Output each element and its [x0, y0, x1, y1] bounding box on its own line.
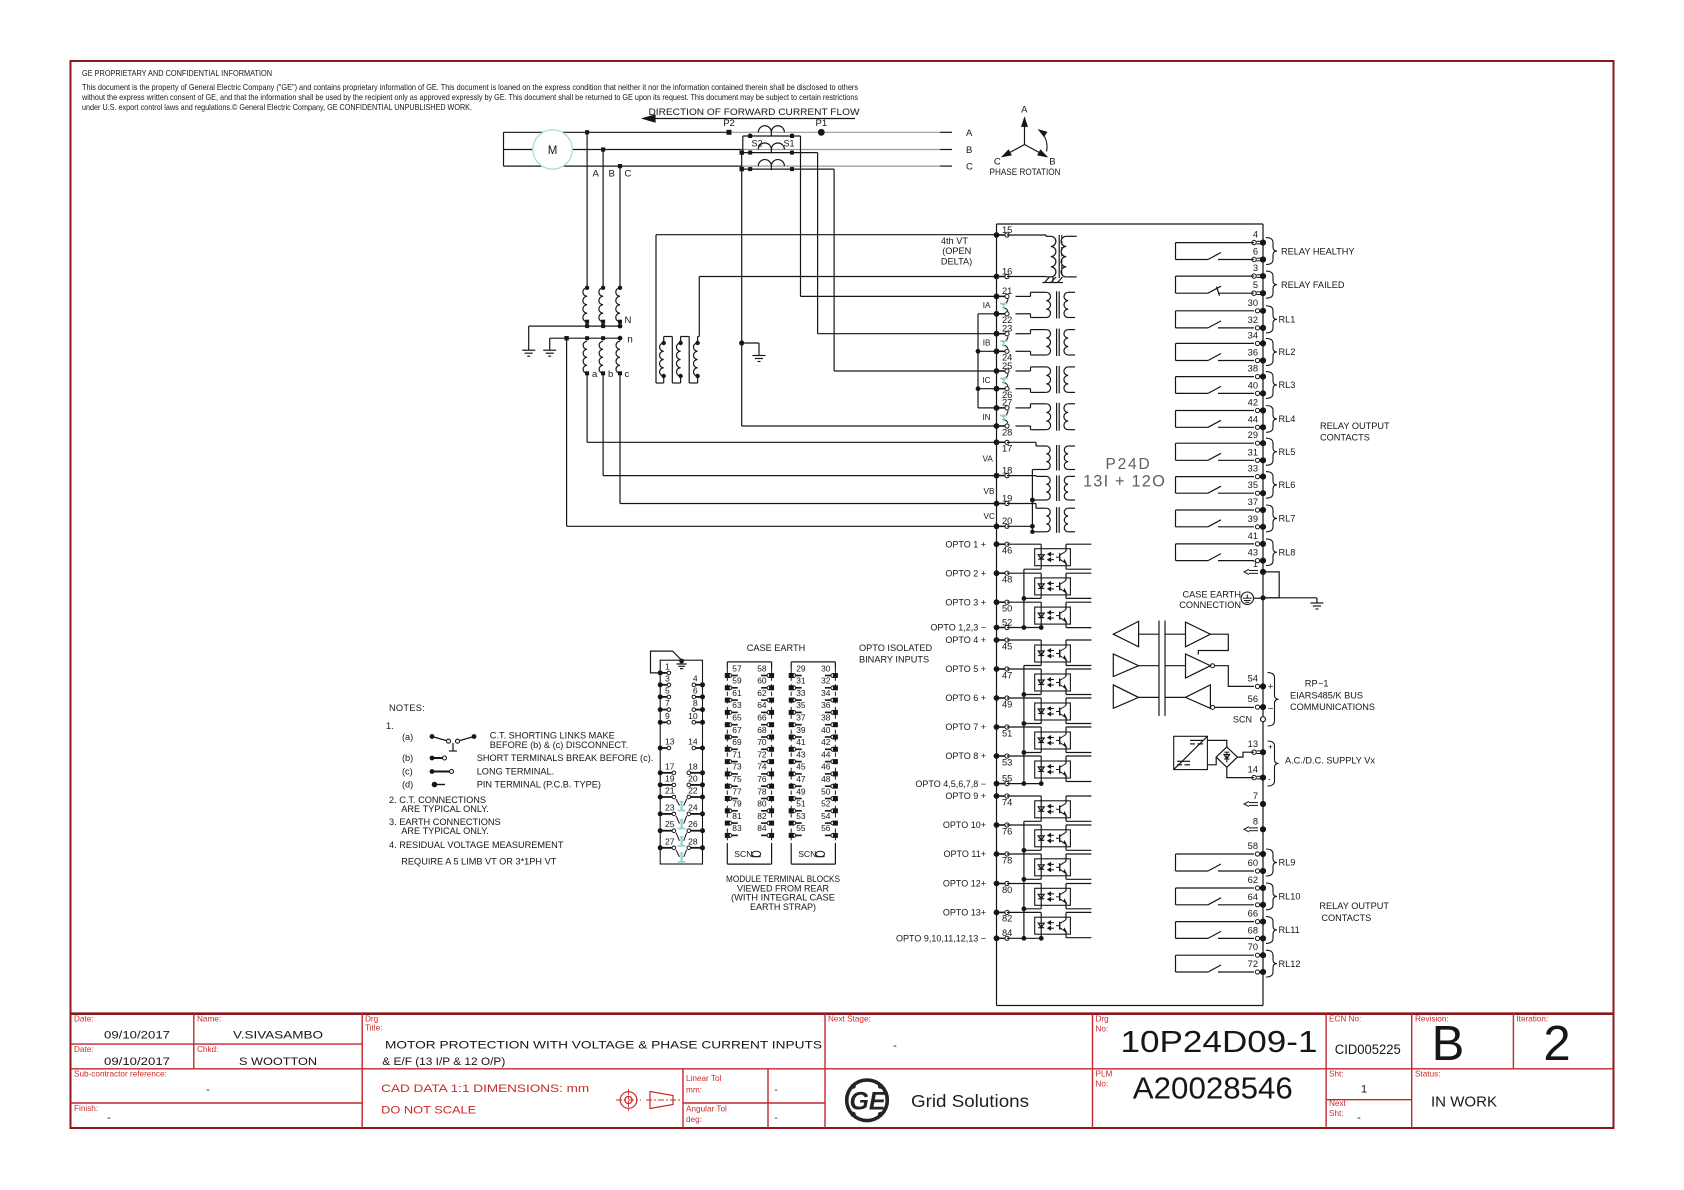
svg-text:RL11: RL11: [1279, 925, 1300, 935]
wire opto collector out: [1065, 825, 1067, 832]
brace RL11: [1266, 917, 1277, 944]
block terminals 67/68: [725, 735, 730, 740]
terminal 80: [994, 881, 1000, 887]
CT phase A winding: [758, 126, 784, 133]
wire bridge to terminal 13: [1237, 752, 1254, 757]
terminal 39: [1255, 525, 1259, 529]
svg-text:32: 32: [821, 676, 831, 686]
svg-text:44: 44: [821, 749, 831, 759]
transformer IN: [1046, 404, 1050, 430]
wire tap B down to VT: [602, 150, 604, 288]
svg-text:(b): (b): [402, 753, 413, 763]
block1 terminals 25/26: [658, 828, 663, 833]
relay contact RELAY FAILED: [1176, 275, 1255, 277]
svg-text:62: 62: [757, 688, 767, 698]
svg-text:31: 31: [796, 676, 806, 686]
svg-text:-: -: [1357, 1112, 1361, 1124]
svg-text:c: c: [625, 369, 630, 380]
svg-text:58: 58: [1248, 841, 1258, 851]
svg-text:8: 8: [693, 698, 698, 708]
wire tap C down to VT: [619, 166, 621, 288]
svg-text:VB: VB: [984, 487, 995, 496]
svg-text:52: 52: [821, 799, 831, 809]
svg-text:27: 27: [665, 836, 675, 846]
optocoupler OPTO 9: [1035, 801, 1071, 818]
svg-text:B: B: [1432, 1017, 1465, 1071]
wire opto anode: [1007, 601, 1041, 603]
svg-text:IA: IA: [983, 301, 991, 310]
relay contact RELAY HEALTHY: [1176, 242, 1255, 244]
svg-text:74: 74: [757, 762, 767, 772]
RS485 buffer triangle right 3: [1186, 685, 1211, 708]
terminal 51: [994, 724, 1000, 730]
svg-text:Linear Tol: Linear Tol: [686, 1074, 722, 1083]
svg-text:P24D: P24D: [1106, 456, 1152, 473]
svg-text:Finish:: Finish:: [74, 1104, 98, 1113]
brace RELAY HEALTHY: [1266, 238, 1277, 265]
svg-text:84: 84: [1002, 928, 1012, 938]
svg-text:31: 31: [1248, 447, 1258, 457]
svg-text:30: 30: [821, 663, 831, 673]
wire opto emitter out: [1065, 903, 1067, 909]
brace RS485: [1268, 673, 1279, 726]
svg-text:83: 83: [732, 823, 742, 833]
terminal 13: [1252, 750, 1256, 754]
block terminals 39/40: [789, 735, 794, 740]
svg-text:IB: IB: [983, 339, 991, 348]
svg-text:62: 62: [1248, 875, 1258, 885]
svg-text:45: 45: [796, 762, 806, 772]
svg-text:37: 37: [1248, 497, 1258, 507]
svg-text:ECN No:: ECN No:: [1329, 1015, 1361, 1024]
case earth connection symbol: [1241, 592, 1253, 604]
svg-text:30: 30: [1248, 298, 1258, 308]
svg-text:28: 28: [1002, 427, 1012, 437]
optocoupler OPTO 12: [1035, 888, 1071, 905]
svg-text:09/10/2017: 09/10/2017: [104, 1030, 170, 1042]
wire opto anode: [1007, 543, 1041, 545]
svg-text:66: 66: [1248, 909, 1258, 919]
phase B line: [504, 149, 742, 151]
phase tap junction B: [601, 147, 605, 151]
svg-text:37: 37: [796, 713, 806, 723]
svg-text:OPTO 2 +: OPTO 2 +: [945, 568, 986, 578]
relay contact RL10: [1176, 887, 1255, 889]
svg-text:SHORT TERMINALS BREAK BEFORE (: SHORT TERMINALS BREAK BEFORE (c).: [477, 753, 654, 763]
block terminals 79/80: [725, 808, 730, 813]
svg-text:VC: VC: [984, 512, 995, 521]
svg-text:19: 19: [1002, 493, 1012, 503]
svg-text:77: 77: [732, 786, 742, 796]
svg-text:66: 66: [757, 713, 767, 723]
svg-text:B: B: [1049, 156, 1055, 167]
terminal 72: [1255, 970, 1259, 974]
RS485 buffer triangle left 3: [1113, 685, 1138, 708]
svg-text:S WOOTTON: S WOOTTON: [239, 1056, 317, 1068]
relay contact RL3: [1176, 376, 1255, 378]
terminal 34: [1255, 341, 1259, 345]
svg-text:4. RESIDUAL VOLTAGE MEASURE: 4. RESIDUAL VOLTAGE MEASUREMENT: [389, 840, 564, 850]
svg-text:8: 8: [1253, 816, 1258, 826]
block terminals 57/58: [725, 673, 730, 678]
open delta winding 2: [676, 343, 680, 376]
svg-text:Drg: Drg: [365, 1015, 379, 1024]
brace RL2: [1266, 338, 1277, 365]
svg-text:CID005225: CID005225: [1335, 1042, 1401, 1057]
wire a to terminal 17: [586, 373, 588, 442]
CT A secondary loop: [743, 135, 801, 137]
block terminals 81/82: [725, 821, 730, 826]
brace supply: [1268, 741, 1279, 786]
svg-text:40: 40: [1248, 380, 1258, 390]
svg-text:82: 82: [1002, 914, 1012, 924]
svg-text:-: -: [206, 1084, 210, 1096]
relay contact RL12: [1176, 954, 1255, 956]
wire last opto cathode: [1040, 624, 1042, 627]
svg-text:76: 76: [1002, 826, 1012, 836]
block terminals 61/62: [725, 698, 730, 703]
terminal 35: [1255, 491, 1259, 495]
wire opto emitter out: [1065, 718, 1067, 724]
svg-text:−: −: [1268, 703, 1274, 714]
CT phase C winding: [758, 160, 784, 167]
svg-text:1: 1: [665, 661, 670, 671]
VT secondary winding b: [599, 341, 603, 373]
svg-text:RL5: RL5: [1279, 447, 1296, 457]
svg-text:25: 25: [665, 819, 675, 829]
svg-text:mm:: mm:: [686, 1086, 702, 1095]
phase tap junction A: [585, 130, 589, 134]
svg-text:29: 29: [796, 663, 806, 673]
svg-text:BEFORE (b) & (c) DISCONNECT.: BEFORE (b) & (c) DISCONNECT.: [490, 740, 628, 750]
svg-text:50: 50: [821, 786, 831, 796]
svg-text:34: 34: [821, 688, 831, 698]
terminal 58: [1255, 852, 1259, 856]
svg-text:80: 80: [1002, 885, 1012, 895]
wire tap A down to VT: [586, 132, 588, 287]
svg-text:C: C: [625, 169, 632, 180]
svg-text:60: 60: [757, 676, 767, 686]
terminal 31: [1255, 458, 1259, 462]
svg-text:Angular Tol: Angular Tol: [686, 1105, 727, 1114]
wire opto collector out: [1065, 573, 1067, 580]
wire opto cathode to minus bus: [1040, 749, 1042, 753]
svg-text:36: 36: [821, 700, 831, 710]
RS485 buffer triangle right 1: [1186, 622, 1211, 647]
block1 terminals 9/10: [658, 720, 663, 725]
svg-text:49: 49: [796, 786, 806, 796]
wire opto anode: [1007, 668, 1041, 670]
svg-text:45: 45: [1002, 641, 1012, 651]
svg-text:-: -: [893, 1040, 897, 1052]
svg-text:75: 75: [732, 774, 742, 784]
svg-text:GE PROPRIETARY AND CONFIDENTIA: GE PROPRIETARY AND CONFIDENTIAL INFORMAT…: [82, 68, 272, 78]
svg-text:RL8: RL8: [1279, 547, 1296, 557]
terminal 24: [994, 348, 1000, 354]
svg-text:2: 2: [1543, 1017, 1570, 1071]
VT secondary bus n: [550, 337, 620, 339]
svg-text:1: 1: [1253, 559, 1258, 569]
brace RL1: [1266, 306, 1277, 333]
terminal block right: [791, 661, 835, 663]
svg-text:67: 67: [732, 725, 742, 735]
svg-text:36: 36: [1248, 348, 1258, 358]
svg-text:OPTO 12+: OPTO 12+: [943, 879, 986, 889]
svg-text:RL2: RL2: [1279, 347, 1296, 357]
optocoupler OPTO 8: [1035, 761, 1071, 778]
ground at VT secondary star: [543, 349, 556, 351]
terminal 55: [994, 781, 1000, 787]
terminal 25: [994, 368, 1000, 374]
svg-text:BINARY INPUTS: BINARY INPUTS: [859, 654, 929, 664]
block1 terminals 23/24: [658, 811, 663, 816]
svg-text:18: 18: [688, 761, 698, 771]
optocoupler OPTO 13: [1035, 917, 1071, 934]
svg-text:SCN: SCN: [734, 849, 752, 859]
motor M: [533, 130, 572, 169]
svg-text:20: 20: [1002, 516, 1012, 526]
svg-text:RELAY OUTPUT: RELAY OUTPUT: [1319, 901, 1389, 911]
svg-text:71: 71: [732, 749, 742, 759]
wire opto emitter out: [1065, 932, 1067, 938]
terminal 23: [994, 331, 1000, 337]
block terminals 51/52: [789, 808, 794, 813]
terminal 84: [994, 935, 1000, 941]
terminal 19: [994, 501, 1000, 507]
block terminals 43/44: [789, 759, 794, 764]
block terminals 69/70: [725, 747, 730, 752]
svg-text:33: 33: [796, 688, 806, 698]
svg-text:17: 17: [665, 761, 675, 771]
svg-text:50: 50: [1002, 604, 1012, 614]
svg-text:-: -: [774, 1113, 777, 1124]
terminal 4: [1252, 240, 1256, 244]
svg-text:23: 23: [665, 802, 675, 812]
wire RS485 to terminal 54: [1198, 634, 1228, 654]
block terminals 33/34: [789, 698, 794, 703]
svg-text:C.T. SHORTING LINKS MAKE: C.T. SHORTING LINKS MAKE: [490, 731, 615, 741]
svg-text:4: 4: [1253, 230, 1258, 240]
svg-text:IN WORK: IN WORK: [1431, 1095, 1497, 1111]
terminal 21: [994, 294, 1000, 300]
terminal 29: [1255, 441, 1259, 445]
brace RL5: [1266, 438, 1277, 465]
svg-text:14: 14: [1248, 765, 1258, 775]
title block grid: [71, 1012, 1614, 1015]
brace RL4: [1266, 406, 1277, 433]
terminal 41: [1255, 542, 1259, 546]
note symbol b: [430, 756, 435, 761]
svg-text:MOTOR PROTECTION WITH VOLTAGE: MOTOR PROTECTION WITH VOLTAGE & PHASE CU…: [385, 1040, 822, 1052]
block1 terminals 1: [658, 670, 663, 675]
terminal 33: [1255, 475, 1259, 479]
svg-text:& E/F (13 I/P & 12 O/P): & E/F (13 I/P & 12 O/P): [382, 1056, 505, 1068]
svg-text:Sht:: Sht:: [1329, 1070, 1344, 1079]
wire opto collector out: [1065, 727, 1067, 735]
svg-text:26: 26: [688, 819, 698, 829]
svg-text:16: 16: [1002, 266, 1012, 276]
svg-text:47: 47: [796, 774, 806, 784]
wire opto emitter out: [1065, 873, 1067, 879]
wire opto emitter out: [1065, 776, 1067, 782]
input IC shorting link: [1003, 374, 1009, 380]
svg-text:OPTO 1,2,3 −: OPTO 1,2,3 −: [930, 623, 986, 633]
svg-text:34: 34: [1248, 330, 1258, 340]
wire opto cathode to minus bus: [1040, 720, 1042, 724]
wire b to terminal 18: [602, 373, 604, 475]
block terminals 45/46: [789, 771, 794, 776]
svg-text:Date:: Date:: [74, 1045, 94, 1054]
svg-text:49: 49: [1002, 699, 1012, 709]
terminal 45: [994, 637, 1000, 643]
svg-text:RL9: RL9: [1279, 858, 1296, 868]
svg-text:Next Stage:: Next Stage:: [828, 1015, 871, 1024]
optocoupler OPTO 2: [1035, 578, 1071, 595]
svg-text:+: +: [1268, 741, 1273, 751]
wire opto cathode to minus bus: [1040, 847, 1042, 851]
svg-text:42: 42: [1248, 398, 1258, 408]
svg-text:RP−1: RP−1: [1305, 679, 1329, 689]
svg-text:A.C./D.C. SUPPLY Vx: A.C./D.C. SUPPLY Vx: [1285, 756, 1375, 766]
VT primary winding A: [583, 288, 587, 322]
relay contact RL4: [1176, 410, 1255, 412]
CT P1 junction: [818, 129, 825, 136]
wire opto collector out: [1065, 602, 1067, 609]
svg-text:(c): (c): [402, 767, 413, 777]
svg-text:B: B: [966, 145, 972, 156]
svg-text:SCN: SCN: [1233, 714, 1252, 724]
CT phase B winding: [758, 143, 784, 150]
svg-text:63: 63: [732, 700, 742, 710]
svg-text:CONNECTION: CONNECTION: [1179, 600, 1241, 610]
svg-text:A: A: [593, 169, 600, 180]
wire opto collector out: [1065, 640, 1067, 648]
terminal 74: [994, 793, 1000, 799]
svg-text:10P24D09-1: 10P24D09-1: [1121, 1025, 1318, 1059]
svg-text:RL1: RL1: [1279, 315, 1296, 325]
opto minus bus: [1023, 666, 1025, 784]
svg-text:78: 78: [1002, 855, 1012, 865]
svg-text:46: 46: [1002, 546, 1012, 556]
VT primary winding B: [599, 288, 603, 322]
optocoupler OPTO 10: [1035, 830, 1071, 847]
wire opto cathode to minus bus: [1040, 595, 1042, 599]
svg-text:5: 5: [1253, 280, 1258, 290]
svg-text:69: 69: [732, 737, 742, 747]
svg-text:RL3: RL3: [1279, 380, 1296, 390]
brace RL3: [1266, 372, 1277, 399]
svg-text:58: 58: [757, 663, 767, 673]
svg-text:C: C: [966, 162, 973, 173]
svg-text:39: 39: [1248, 514, 1258, 524]
wire opto emitter out: [1065, 660, 1067, 666]
svg-text:46: 46: [821, 762, 831, 772]
wire opto cathode to minus bus: [1040, 566, 1042, 570]
block terminals 75/76: [725, 784, 730, 789]
svg-text:80: 80: [757, 799, 767, 809]
relay contact RL11: [1176, 921, 1255, 923]
wire opto anode: [1007, 824, 1041, 826]
svg-text:CASE EARTH: CASE EARTH: [1182, 589, 1241, 599]
terminal 18: [994, 473, 1000, 479]
input IA shorting link: [1003, 299, 1009, 305]
svg-text:M: M: [548, 145, 558, 157]
wire CT B S1 down to terminal 23: [817, 153, 819, 334]
block terminals 65/66: [725, 722, 730, 727]
block terminals 73/74: [725, 771, 730, 776]
svg-text:18: 18: [1002, 465, 1012, 475]
terminal 37: [1255, 508, 1259, 512]
wire case earth to ground: [1263, 597, 1317, 599]
wire opto emitter out: [1065, 844, 1067, 850]
wire opto anode: [1007, 697, 1041, 699]
wire opto emitter out: [1065, 563, 1067, 569]
wire CT C S1 down to terminal 25: [833, 169, 835, 371]
terminal 1: [1244, 569, 1249, 574]
svg-text:Chkd:: Chkd:: [197, 1045, 218, 1054]
svg-text:35: 35: [1248, 480, 1258, 490]
svg-text:28: 28: [688, 836, 698, 846]
VT primary winding C: [616, 288, 620, 322]
svg-text:IN: IN: [982, 413, 990, 422]
svg-text:RL6: RL6: [1279, 480, 1296, 490]
wire opto anode: [1007, 883, 1041, 885]
terminal 46: [994, 541, 1000, 547]
terminal 78: [994, 851, 1000, 857]
svg-text:Sht:: Sht:: [1329, 1109, 1344, 1118]
svg-text:21: 21: [665, 786, 675, 796]
svg-text:1: 1: [1361, 1084, 1367, 1096]
svg-text:OPTO 7 +: OPTO 7 +: [945, 722, 986, 732]
svg-text:PIN TERMINAL (P.C.B. TYPE): PIN TERMINAL (P.C.B. TYPE): [477, 780, 601, 790]
svg-text:a: a: [592, 369, 598, 380]
svg-text:20: 20: [688, 773, 698, 783]
svg-text:OPTO ISOLATED: OPTO ISOLATED: [859, 643, 933, 653]
svg-text:A: A: [1021, 105, 1028, 116]
svg-text:59: 59: [732, 676, 742, 686]
wire n bus to earth: [549, 338, 551, 350]
svg-text:PHASE ROTATION: PHASE ROTATION: [990, 167, 1061, 178]
svg-text:DO NOT SCALE: DO NOT SCALE: [381, 1104, 476, 1116]
transformer VA: [1046, 446, 1050, 470]
svg-text:b: b: [608, 369, 613, 380]
svg-text:Grid Solutions: Grid Solutions: [911, 1091, 1029, 1111]
svg-text:OPTO 5 +: OPTO 5 +: [945, 664, 986, 674]
wire opto anode: [1007, 795, 1041, 797]
svg-text:22: 22: [688, 786, 698, 796]
svg-text:NOTES:: NOTES:: [389, 703, 425, 713]
transformer VC: [1046, 508, 1050, 532]
svg-text:RL10: RL10: [1279, 892, 1301, 902]
svg-text:ARE TYPICAL ONLY.: ARE TYPICAL ONLY.: [401, 826, 488, 836]
terminal 40: [1255, 391, 1259, 395]
svg-text:-: -: [1268, 774, 1271, 784]
block1 terminals 3/4: [658, 682, 663, 687]
svg-text:51: 51: [1002, 728, 1012, 738]
svg-text:OPTO 9 +: OPTO 9 +: [945, 791, 986, 801]
svg-text:41: 41: [1248, 531, 1258, 541]
svg-text:3: 3: [665, 673, 670, 683]
terminal 28: [994, 423, 1000, 429]
terminal 8: [1244, 827, 1249, 832]
terminal 42: [1255, 408, 1259, 412]
svg-text:52: 52: [1002, 617, 1012, 627]
wire opto collector out: [1065, 884, 1067, 891]
svg-text:DIRECTION OF FORWARD CURREN: DIRECTION OF FORWARD CURRENT FLOW: [649, 107, 860, 118]
case earth strap: [651, 651, 682, 673]
svg-text:IC: IC: [982, 376, 990, 385]
relay contact RL5: [1176, 442, 1255, 444]
